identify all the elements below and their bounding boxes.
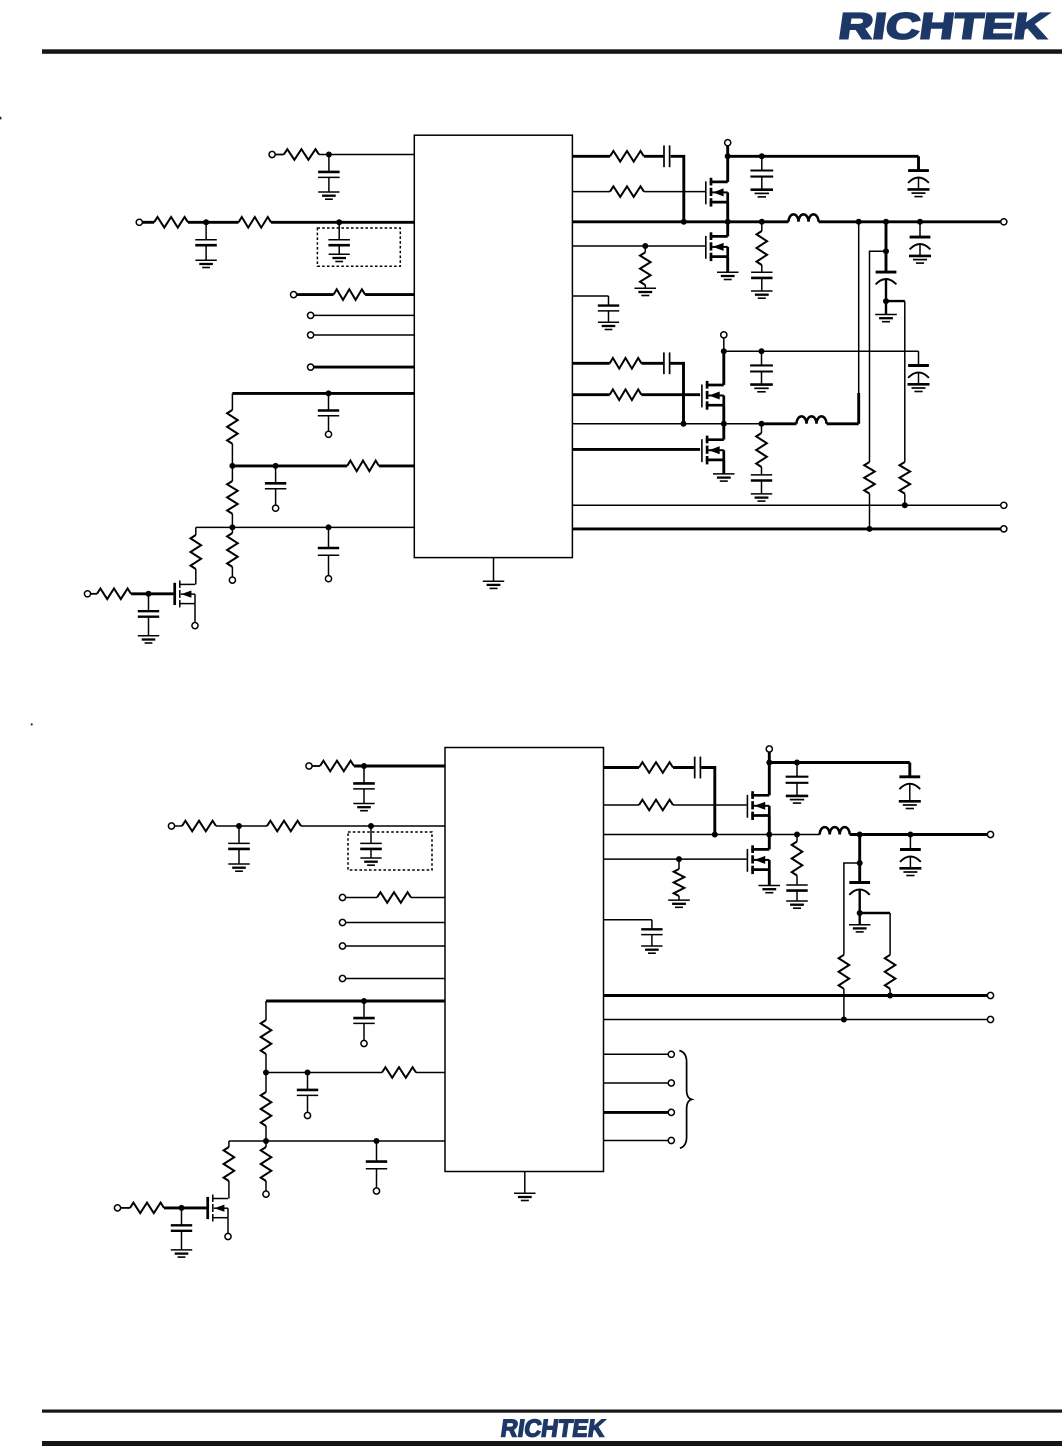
wire R6 top (231, 466, 233, 481)
terminal NC1 (668, 1051, 674, 1057)
capacitor C31 (641, 920, 662, 954)
wire BOOT2 b (641, 362, 663, 365)
wire R2 to R3 (188, 221, 239, 224)
capacitor C6 (318, 527, 339, 575)
wire Q6 source (768, 816, 771, 835)
node FB tap lower (883, 298, 889, 304)
resistor R2 (154, 217, 188, 228)
node snubber1 (759, 219, 765, 225)
wire R19 bottom (904, 494, 906, 506)
wire FB tap lower S2 b (889, 913, 891, 955)
capacitor C27 (786, 763, 809, 804)
node boot2-SW2 (681, 421, 687, 427)
capacitor C21 (optional) (360, 826, 382, 865)
wire VOUT row S2 (850, 833, 988, 836)
polarized capacitor C30 (899, 850, 921, 876)
terminal EN (291, 292, 297, 298)
transistor Q6 (747, 791, 769, 820)
resistor R5 (227, 410, 238, 444)
wire FB tap upper (870, 251, 887, 462)
wire LGATE1 (572, 245, 705, 247)
wire Q8 source (768, 870, 771, 886)
node R10-C7 (146, 591, 152, 597)
ground Q8 source (759, 886, 781, 893)
wire VIN rail S2 (769, 761, 910, 764)
node Cout tap S2 (857, 832, 863, 838)
wire chain top (231, 393, 233, 410)
resistor R30 (639, 762, 673, 773)
resistor R26 (261, 1147, 272, 1181)
wire NC pin4 (604, 1140, 668, 1142)
terminal pin5 (308, 332, 314, 338)
node R29-C25 (179, 1205, 185, 1211)
node R2-C2 (203, 219, 209, 225)
terminal Q5 source (192, 623, 198, 629)
wire VIN2 rail (724, 350, 919, 352)
wire LGATE2 (572, 448, 700, 451)
wire VIN drop S2 (768, 752, 771, 763)
transistor Q8 (747, 845, 769, 874)
capacitor C29 (snubber) (786, 876, 807, 902)
wire FB tap lower b (904, 301, 906, 462)
capacitor C9 (750, 156, 773, 197)
resistor R31 (639, 800, 673, 811)
wire BOOT2 a (572, 362, 609, 365)
terminal pin4 (308, 312, 314, 318)
capacitor C8 (bootstrap, series) (664, 145, 670, 167)
wire UGATE2 a (572, 393, 609, 396)
svg-text:RICHTEK: RICHTEK (836, 6, 1051, 47)
terminal VIN rail S2 (766, 746, 772, 752)
wire R7 top (231, 527, 233, 533)
node C27 tap (794, 760, 800, 766)
ground snubber2 (751, 494, 772, 501)
wire NC pin3 (604, 1111, 668, 1114)
resistor R21 (182, 821, 216, 832)
terminal VIN1 (725, 140, 731, 146)
node pin1 RC (326, 152, 332, 158)
wire Q1 drain (726, 156, 729, 182)
wire VIN2 input (174, 825, 182, 827)
terminal VCC2 (306, 763, 312, 769)
wire R4 to U1 pin3 (365, 293, 414, 296)
wire BOOT1 to SW (671, 156, 684, 222)
wire VREF row S2 (604, 919, 652, 921)
wire FB tap lower a (886, 300, 905, 302)
wire chain top S2 (265, 1001, 267, 1020)
wire Q1 source (726, 202, 729, 222)
ground U2 (514, 1193, 536, 1200)
wire phase tie b (857, 393, 860, 424)
node SW S2 (766, 832, 772, 838)
node C5 tap (273, 463, 279, 469)
wire R25 top (265, 1073, 267, 1093)
wire R32 top (678, 859, 680, 869)
resistor R11 (610, 151, 644, 162)
wire Q7 source (227, 1218, 229, 1234)
resistor R17 (756, 433, 767, 467)
node snubber S2 (794, 832, 800, 838)
wire FB row (572, 504, 1001, 506)
inductor L1 (789, 214, 819, 221)
node R18-GND row (867, 526, 873, 532)
polarized capacitor C32 (849, 883, 870, 925)
capacitor C5 (265, 466, 286, 505)
resistor R9 (191, 535, 202, 569)
wire R29 to Q7 gate (164, 1206, 206, 1209)
wire Q4 source (722, 460, 725, 474)
wire NC pin1 (604, 1053, 668, 1055)
wire R1 to U1 pin1 (319, 154, 414, 156)
wire Q3 drain (722, 351, 725, 385)
wire UGATE S2 a (604, 804, 640, 806)
node chain-pin9 (229, 524, 235, 530)
node phase tie (856, 219, 862, 225)
wire R5-R6 (231, 444, 233, 466)
node R21-C20 (236, 823, 242, 829)
capacitor C15 (bootstrap, series) (664, 352, 670, 374)
capacitor C26 (bootstrap, series) (695, 757, 701, 779)
polarized capacitor C10 (908, 171, 930, 197)
wire U1 pin9 row (196, 526, 414, 528)
terminal gate drive S2 (114, 1205, 120, 1211)
capacitor C24 (366, 1141, 387, 1188)
ground Q2 source (717, 272, 739, 279)
node chain-pin8 S2 (263, 1070, 269, 1076)
wire VOUT to C32 S2 (858, 835, 861, 883)
left margin speck 2 (31, 723, 33, 725)
wire R28 to Q7 drain (228, 1181, 230, 1199)
wire R10 to Q5 gate (131, 592, 173, 595)
wire EN input (297, 293, 334, 296)
ground R32 (668, 900, 690, 907)
resistor R33 (792, 842, 803, 876)
wire R6 bottom (231, 514, 233, 528)
resistor R1 (284, 149, 319, 160)
wire VREF row (572, 295, 608, 297)
inductor L3 (820, 827, 850, 834)
curly brace NC group (679, 1051, 691, 1149)
wire R32 bottom (678, 896, 680, 900)
wire snubber top S2 (796, 835, 798, 842)
terminal gate drive (84, 591, 90, 597)
capacitor C20 (228, 826, 250, 871)
resistor R15 (610, 358, 642, 369)
ground C13 (875, 315, 897, 322)
resistor R7 (227, 533, 238, 567)
wire VIN input (142, 221, 154, 224)
wire phase tie a (858, 222, 860, 393)
wire to U1 pin2 (271, 221, 414, 224)
resistor R3 (239, 217, 272, 228)
resistor R14 (757, 231, 768, 265)
ground R13 (635, 288, 657, 295)
node C16 tap (759, 348, 765, 354)
wire Q5 source (194, 604, 196, 623)
node FB tap upper (883, 248, 889, 254)
resistor R24 (261, 1020, 272, 1054)
wire U1 pin8 row a (232, 464, 347, 467)
left margin speck 1 (0, 117, 1, 120)
wire PGND row S2 (604, 994, 988, 997)
polarized capacitor C14 (909, 237, 931, 263)
wire Q2 source (726, 257, 729, 273)
wire SW row S2 (604, 834, 820, 836)
terminal NC3 (668, 1109, 674, 1115)
wire R24 bottom (265, 1054, 267, 1073)
wire Q8 drain (768, 835, 771, 850)
wire U1 GND pin (493, 558, 495, 582)
wire SW1 row (572, 220, 788, 223)
wire U2 pin8 row b (416, 1072, 445, 1074)
capacitor C19 (353, 766, 375, 811)
wire UGATE1 b (644, 191, 705, 193)
resistor R13 (640, 252, 651, 285)
node FB tap lower S2 (857, 910, 863, 916)
wire to U2 pin2 (301, 825, 445, 827)
terminal PGND S2 (987, 992, 993, 998)
ground Q4 source (713, 474, 735, 481)
wire EN2 input (345, 897, 377, 899)
resistor R18 (864, 462, 875, 494)
transistor Q5 (175, 580, 195, 607)
wire U2 pin6 (345, 978, 445, 980)
transistor Q1 (706, 178, 728, 207)
wire gate input (90, 593, 97, 595)
node VIN1-drain (725, 153, 731, 159)
ground snubber1 (751, 291, 773, 298)
wire SW2 row a (572, 423, 761, 425)
polarized capacitor C28 (899, 777, 921, 809)
wire UGATE1 a (572, 191, 610, 193)
resistor R27 (382, 1067, 416, 1078)
wire NC pin2 (604, 1082, 668, 1084)
node LGATE1-R13 (642, 243, 648, 249)
wire R35 bottom (889, 989, 891, 996)
dashed option box (317, 228, 400, 266)
wire FB row S2 (604, 1019, 988, 1021)
wire VOUT to C30 S2 (909, 835, 911, 850)
terminal Q7 source (225, 1233, 231, 1239)
wire R9 to Q5 drain (195, 569, 197, 585)
ground snubber S2 (786, 901, 808, 908)
node SW1 (725, 219, 731, 225)
terminal FB (1001, 502, 1007, 508)
wire U1 pin5 (314, 334, 415, 336)
wire U1 pin6 (314, 366, 415, 369)
wire R13 bottom (644, 285, 646, 288)
capacitor C2 (195, 222, 217, 267)
node R35-row S2 (887, 993, 893, 999)
polarized capacitor C13 (876, 272, 897, 314)
wire to C10 (917, 156, 920, 170)
node snubber2 (759, 421, 765, 427)
resistor R28 (224, 1147, 235, 1181)
wire BOOT2 to SW2 (670, 363, 683, 424)
wire U2 pin4 (345, 922, 445, 924)
node pin1 RC 2 (361, 763, 367, 769)
node LGATE-R32 (676, 856, 682, 862)
wire VIN2 drop (723, 338, 725, 351)
wire gate input S2 (120, 1207, 130, 1209)
wire U2 pin8 row a (266, 1072, 382, 1074)
wire BOOT to SW S2 (701, 768, 715, 835)
wire Q2 drain (726, 222, 729, 237)
wire drain chain top (195, 527, 197, 535)
wire drain chain S2 (228, 1141, 230, 1147)
node C9 tap (759, 153, 765, 159)
node chain-pin8 (229, 463, 235, 469)
wire VCC input (275, 154, 284, 156)
transistor Q4 (702, 436, 724, 465)
node C13 tap (883, 219, 889, 225)
wire SW2 row b (762, 422, 797, 425)
node boot-SW S2 (712, 832, 718, 838)
node C6 tap (326, 524, 332, 530)
wire Q6 drain (768, 763, 771, 796)
wire FB tap upper S2 (844, 863, 860, 955)
wire VOUT1 to C13 (885, 222, 888, 272)
resistor R32 (674, 869, 685, 896)
terminal VIN (S2) (168, 823, 174, 829)
IC U1 (414, 135, 572, 557)
node C22 tap (361, 998, 367, 1004)
terminal VOUT1 (1001, 219, 1007, 225)
svg-text:RICHTEK: RICHTEK (499, 1416, 607, 1443)
wire FB tap lower S2 a (860, 912, 890, 914)
capacitor C3 (optional) (328, 222, 350, 261)
terminal divider tap (229, 577, 235, 583)
terminal EN2 (339, 894, 345, 900)
wire U2 pin5 (345, 945, 445, 947)
wire Q3 source (722, 405, 725, 424)
terminal pin6 S2 (339, 975, 345, 981)
wire R20 to U2 pin1 (354, 765, 445, 768)
wire VOUT1 row (819, 220, 1001, 223)
capacitor C25 (171, 1208, 192, 1257)
wire VCC2 input (312, 765, 320, 767)
resistor R12 (610, 186, 644, 197)
dashed option box 2 (348, 832, 432, 870)
terminal VIN (136, 219, 142, 225)
terminal PGND (1001, 526, 1007, 532)
wire R18 bottom (869, 494, 871, 529)
wire BOOT S2 b (673, 766, 694, 769)
wire BOOT S2 a (604, 766, 640, 769)
terminal NC4 (668, 1137, 674, 1143)
terminal VCC (269, 151, 275, 157)
resistor R19 (900, 462, 911, 494)
IC U2 (445, 748, 604, 1172)
node boot-SW1 (681, 219, 687, 225)
terminal NC2 (668, 1080, 674, 1086)
wire R13 top (644, 246, 646, 252)
wire VOUT1 to C14 (919, 222, 921, 237)
terminal divider tap S2 (263, 1191, 269, 1197)
wire U1 pin7 row (232, 392, 414, 395)
wire BOOT1 b (644, 155, 664, 158)
transistor Q7 (208, 1195, 228, 1222)
resistor R35 (885, 955, 896, 989)
wire VIN1 drop (726, 146, 729, 157)
wire R21 to R22 (216, 825, 267, 827)
node C24 tap (374, 1138, 380, 1144)
footer rule lower (42, 1441, 1062, 1446)
node R19-FB row (902, 502, 908, 508)
capacitor C12 (598, 296, 619, 330)
wire U2 GND pin (524, 1172, 526, 1194)
node chain-pin9 S2 (263, 1138, 269, 1144)
ground U1 (483, 581, 504, 588)
node SW2 (721, 421, 727, 427)
wire U2 pin9 row (229, 1140, 445, 1142)
node C14 tap (917, 219, 923, 225)
capacitor C22 (353, 1001, 374, 1041)
capacitor C1 (318, 155, 340, 200)
node FB tap upper S2 (857, 860, 863, 866)
resistor R20 (320, 761, 354, 772)
resistor R23 (377, 892, 411, 903)
node VIN2-drain (721, 348, 727, 354)
resistor R16 (610, 389, 642, 400)
node C21 tap (368, 823, 374, 829)
transistor Q3 (702, 381, 724, 410)
node C4 tap (326, 390, 332, 396)
wire snubber2 top (761, 424, 763, 433)
wire to C28 (908, 763, 911, 777)
resistor R25 (261, 1092, 272, 1126)
wire LGATE S2 (604, 858, 747, 860)
node C3 tap (336, 219, 342, 225)
node C30 tap S2 (907, 832, 913, 838)
node C23 tap (305, 1070, 311, 1076)
wire R25 bottom (265, 1126, 267, 1141)
wire U1 pin8 row b (379, 464, 414, 467)
resistor R34 (839, 955, 850, 989)
resistor R22 (267, 821, 301, 832)
wire L2 out (827, 422, 859, 425)
wire R7 to terminal (231, 567, 233, 577)
wire R23 to U2 pin3 (411, 897, 445, 899)
resistor R6 (227, 481, 238, 514)
terminal pin6 (308, 364, 314, 370)
wire U2 pin7 row (266, 1000, 445, 1003)
wire R34 bottom (843, 989, 845, 1020)
resistor R4 (334, 289, 366, 300)
terminal FB S2 (987, 1016, 993, 1022)
footer rule upper (42, 1410, 1062, 1413)
terminal pin5 S2 (339, 943, 345, 949)
transistor Q2 (706, 232, 728, 261)
wire UGATE2 b (641, 393, 700, 396)
inductor L2 (797, 416, 827, 423)
wire BOOT1 a (572, 155, 610, 158)
wire to C17 (918, 351, 920, 365)
resistor R29 (130, 1203, 164, 1214)
wire U1 pin4 (314, 314, 415, 316)
resistor R10 (97, 589, 131, 600)
node R34-row S2 (841, 1017, 847, 1023)
header rule (42, 49, 1062, 54)
wire R26 to terminal (265, 1181, 267, 1191)
terminal pin4 S2 (339, 919, 345, 925)
polarized capacitor C17 (908, 366, 930, 392)
wire PGND row (572, 527, 1001, 530)
capacitor C23 (297, 1073, 318, 1113)
terminal VOUT S2 (987, 831, 993, 837)
node VIN-drain S2 (766, 760, 772, 766)
capacitor C11 (snubber) (751, 265, 772, 291)
